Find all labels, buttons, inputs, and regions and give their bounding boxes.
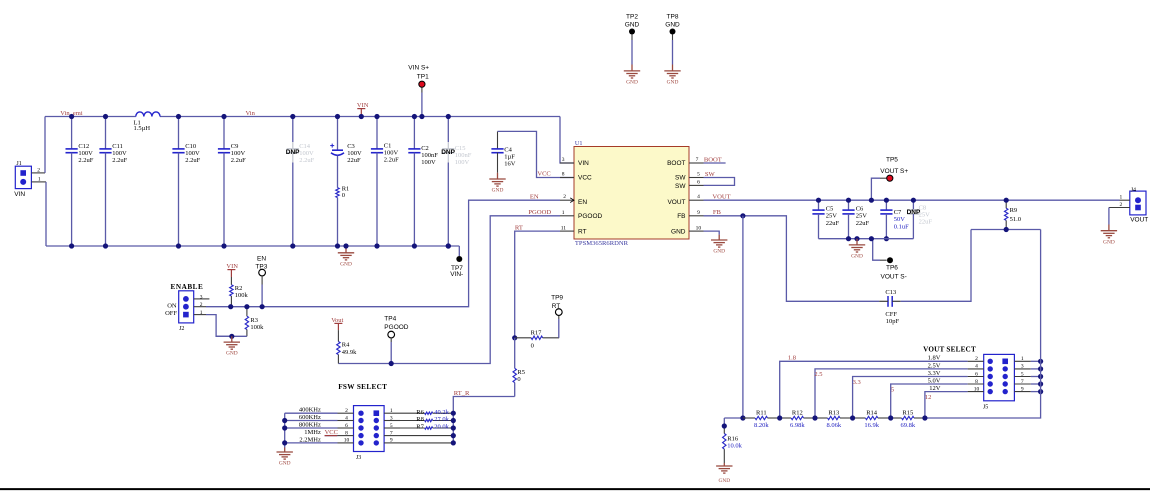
capacitor C2 100nF 100V: [408, 117, 438, 247]
connector J3 FSW header: [354, 406, 385, 461]
pin 9 FB: [689, 215, 704, 217]
wire 2.5V row to divider tap: [815, 369, 968, 418]
svg-text:10pF: 10pF: [886, 318, 900, 325]
resistor R8 27.0k: [400, 416, 453, 423]
svg-text:PGOOD: PGOOD: [528, 209, 551, 216]
svg-text:69.8k: 69.8k: [900, 422, 915, 429]
resistor R15 69.8k: [891, 409, 925, 429]
pin 8 J5 5.0V: [968, 383, 984, 385]
junction C14 top: [290, 114, 295, 119]
svg-text:2.5: 2.5: [814, 371, 822, 378]
ground GND at J3: [277, 448, 293, 467]
junction C10 top: [176, 114, 181, 119]
svg-text:GND: GND: [671, 228, 686, 235]
junction C3 top: [335, 114, 340, 119]
svg-text:2.2uF: 2.2uF: [112, 157, 127, 164]
resistor R11 8.20k: [743, 409, 780, 429]
svg-text:VIN: VIN: [14, 191, 25, 198]
svg-text:2: 2: [975, 356, 978, 362]
pin 9 J3: [384, 442, 400, 444]
svg-text:22uF: 22uF: [347, 157, 361, 164]
junction VIN flag rail: [359, 114, 364, 119]
svg-text:SW: SW: [675, 175, 686, 182]
junction C9 top: [221, 114, 226, 119]
svg-text:5: 5: [390, 423, 393, 429]
wire R9 bottom loop: [971, 229, 1041, 231]
junction RT_R bus: [451, 425, 456, 430]
wire RT from U1 down to R17: [515, 231, 560, 338]
svg-text:49.9k: 49.9k: [342, 349, 357, 356]
svg-text:7: 7: [696, 157, 699, 163]
ground GND under TP8: [664, 65, 680, 86]
wire 800KHz row: [285, 427, 338, 429]
svg-text:VIN-: VIN-: [450, 271, 463, 278]
pin 2 J5 1.8V: [968, 360, 984, 362]
wire J5 right pin to vout bus: [1031, 383, 1041, 385]
svg-text:1: 1: [38, 176, 41, 182]
pin 1 PGOOD: [560, 215, 574, 217]
junction divider node 4: [888, 415, 893, 420]
svg-text:R11: R11: [756, 409, 767, 416]
svg-text:3: 3: [390, 415, 393, 421]
svg-text:C9: C9: [231, 143, 239, 150]
wire FSW ground bus: [284, 413, 286, 447]
svg-text:10: 10: [974, 386, 980, 392]
wire J2 pin2 to EN net: [206, 306, 231, 308]
svg-text:VOUT S-: VOUT S-: [881, 273, 907, 280]
svg-text:8.06k: 8.06k: [826, 422, 841, 429]
svg-text:BOOT: BOOT: [667, 160, 685, 167]
svg-text:VOUT SELECT: VOUT SELECT: [923, 346, 976, 354]
junction C7 top: [884, 198, 889, 203]
test point TP1 VIN S+: [408, 64, 429, 116]
svg-text:TP8: TP8: [667, 14, 679, 21]
ground GND at input bottom rail: [338, 246, 354, 267]
svg-text:GND: GND: [626, 80, 638, 86]
svg-text:100V: 100V: [231, 150, 246, 157]
svg-text:C14: C14: [299, 143, 311, 150]
junction C2 bottom: [412, 243, 417, 248]
capacitor C9 100V 2.2uF: [218, 117, 246, 247]
capacitor C14 DNP 100V 2.2uF: [286, 117, 315, 247]
junction R3 top: [244, 304, 249, 309]
wire J3 pin row to RT_R bus: [400, 442, 453, 444]
svg-text:C8: C8: [919, 205, 927, 212]
resistor R2 100k: [230, 277, 249, 307]
svg-text:GND: GND: [667, 80, 679, 86]
resistor R13 8.06k: [815, 409, 853, 429]
junction R9 top: [1004, 198, 1009, 203]
wire SW loop pin5 to pin6: [704, 178, 735, 186]
svg-text:1: 1: [1120, 195, 1123, 201]
svg-text:25V: 25V: [919, 212, 931, 219]
svg-text:R12: R12: [792, 409, 803, 416]
connector J4 VOUT: [1109, 187, 1148, 223]
connector J5 VOUT select header: [983, 354, 1015, 410]
ground GND under TP2: [624, 65, 640, 86]
wire J5 right pin to vout bus: [1031, 368, 1041, 370]
svg-text:J2: J2: [179, 326, 184, 332]
svg-text:C3: C3: [347, 143, 355, 150]
svg-text:10: 10: [696, 225, 702, 231]
junction fsw row3: [282, 425, 287, 430]
capacitor C10 100V 2.2uF: [172, 117, 200, 247]
svg-text:R13: R13: [828, 409, 839, 416]
resistor R5 0: [513, 338, 525, 397]
pin 4 J5 2.5V: [968, 368, 984, 370]
pin 10 J3 2.2MHz: [338, 442, 354, 444]
connector J1 VIN: [14, 161, 46, 198]
junction vout bus: [1038, 366, 1043, 371]
svg-text:J4: J4: [1131, 187, 1136, 193]
svg-text:6: 6: [697, 180, 700, 186]
junction C10 bottom: [176, 243, 181, 248]
pin 4 J3 600KHz: [338, 420, 354, 422]
wire GND pin to ground: [704, 231, 720, 235]
capacitor C12 100V 2.2uF: [66, 117, 94, 247]
svg-text:3: 3: [1021, 364, 1024, 370]
svg-text:10: 10: [344, 438, 350, 444]
svg-text:3.3: 3.3: [853, 379, 861, 386]
ground GND at U1 pin 10: [711, 235, 727, 255]
svg-text:C10: C10: [185, 143, 196, 150]
svg-text:7: 7: [390, 430, 393, 436]
svg-text:100k: 100k: [235, 292, 249, 299]
test point TP4 PGOOD: [384, 316, 409, 364]
junction C2 top: [412, 114, 417, 119]
svg-text:R8: R8: [416, 416, 424, 423]
svg-text:R16: R16: [727, 436, 739, 443]
capacitor C3 100V 22uF polarized: [330, 117, 362, 188]
ground GND under R16: [716, 463, 732, 484]
svg-text:GND: GND: [665, 22, 680, 29]
connector J2 ENABLE: [165, 283, 209, 332]
svg-text:J1: J1: [16, 161, 21, 167]
svg-text:TP1: TP1: [417, 74, 429, 81]
capacitor C1 100V 2.2uF: [371, 117, 399, 247]
wire C4 to VCC pin: [498, 131, 575, 177]
junction C8 top: [911, 198, 916, 203]
junction C9 bottom: [221, 243, 226, 248]
svg-text:8: 8: [345, 430, 348, 436]
test point TP6 VOUT S-: [873, 239, 907, 280]
junction C6 bottom: [846, 236, 851, 241]
pin 2 J3 400KHz: [338, 412, 354, 414]
test point TP3 EN: [255, 256, 267, 307]
svg-text:800KHz: 800KHz: [299, 421, 321, 428]
junction R9 bottom: [1004, 227, 1009, 232]
wire divider bus left end: [724, 417, 743, 419]
svg-text:0: 0: [531, 343, 534, 350]
wire bottom input rail GND: [46, 245, 459, 247]
svg-text:OFF: OFF: [165, 310, 177, 317]
wire 5.0V row to divider tap: [891, 384, 968, 418]
svg-text:C12: C12: [78, 143, 89, 150]
svg-text:FB: FB: [677, 213, 685, 220]
svg-text:EN: EN: [257, 256, 266, 263]
svg-text:J5: J5: [983, 404, 988, 410]
junction TP7 rail: [446, 243, 451, 248]
wire C13 to R9 bottom: [901, 230, 971, 302]
capacitor C11 100V 2.2uF: [99, 117, 127, 247]
wire EN from U1 to enable circuit: [231, 200, 560, 307]
svg-text:9: 9: [1021, 386, 1024, 392]
wire 400KHz row: [285, 412, 338, 414]
ground GND output caps: [849, 239, 865, 260]
resistor R17 0: [515, 329, 559, 349]
svg-text:VOUT: VOUT: [1130, 216, 1148, 223]
junction C1 top: [374, 114, 379, 119]
svg-text:100k: 100k: [250, 324, 264, 331]
wire PGOOD from U1 down: [338, 216, 560, 364]
resistor R16 10.0k: [723, 418, 743, 463]
junction RT_R bus: [451, 411, 456, 416]
svg-text:0: 0: [342, 192, 345, 199]
svg-text:VOUT: VOUT: [667, 199, 685, 206]
pin 3 VIN: [560, 162, 574, 164]
svg-text:16.9k: 16.9k: [864, 422, 879, 429]
svg-text:C15: C15: [455, 145, 466, 152]
svg-text:1.8: 1.8: [788, 354, 796, 361]
svg-text:100V: 100V: [112, 150, 127, 157]
junction divider right end: [922, 415, 927, 420]
junction C11 bottom: [103, 243, 108, 248]
wire 600KHz row: [285, 420, 338, 422]
svg-text:22uF: 22uF: [856, 220, 870, 227]
capacitor C4 1uF 16V: [491, 131, 515, 172]
svg-text:3: 3: [562, 157, 565, 163]
svg-text:1µF: 1µF: [504, 153, 515, 160]
pin 5 SW: [689, 177, 704, 179]
junction TP6 bus: [869, 236, 874, 241]
svg-text:PGOOD: PGOOD: [578, 213, 603, 220]
junction fsw row2: [282, 418, 287, 423]
junction vout bus: [1038, 381, 1043, 386]
svg-text:EN: EN: [578, 199, 587, 206]
svg-text:C2: C2: [421, 145, 429, 152]
junction C6 top: [846, 198, 851, 203]
svg-text:C4: C4: [504, 146, 512, 153]
svg-text:GND: GND: [718, 478, 730, 484]
svg-text:R17: R17: [531, 329, 543, 336]
svg-text:22uF: 22uF: [919, 219, 933, 226]
wire VCC row: [325, 435, 338, 437]
power flag VIN on top rail: [357, 102, 369, 116]
junction R2 bottom: [228, 304, 233, 309]
svg-text:2: 2: [563, 194, 566, 200]
junction divider node 1: [777, 415, 782, 420]
pin 7 BOOT: [689, 162, 704, 164]
svg-text:6: 6: [345, 423, 348, 429]
svg-text:2.2uF: 2.2uF: [384, 156, 399, 163]
svg-text:SW: SW: [705, 171, 716, 178]
junction R16 top: [722, 423, 727, 428]
junction RT_R bus: [451, 440, 456, 445]
svg-text:C13: C13: [885, 289, 896, 296]
svg-text:100V: 100V: [421, 159, 436, 166]
svg-text:9: 9: [697, 210, 700, 216]
svg-text:12: 12: [925, 394, 932, 401]
svg-text:40.2k: 40.2k: [434, 409, 449, 416]
svg-text:GND: GND: [226, 351, 238, 357]
svg-text:Vin: Vin: [246, 110, 256, 117]
svg-text:2.5V: 2.5V: [928, 362, 941, 369]
pin 10 GND: [689, 230, 704, 232]
op-amp U1 TPSM365R6RDNR regulator module: [574, 140, 689, 247]
ground GND enable: [224, 336, 240, 356]
resistor R9 51.0: [1005, 200, 1021, 229]
svg-text:2.2uF: 2.2uF: [185, 157, 200, 164]
svg-text:100V: 100V: [347, 150, 362, 157]
svg-text:20.0k: 20.0k: [434, 424, 449, 431]
svg-text:TP4: TP4: [384, 316, 396, 323]
wire J3 pin row to RT_R bus: [400, 435, 453, 437]
svg-text:7: 7: [1021, 379, 1024, 385]
svg-text:FB: FB: [713, 209, 722, 216]
test point TP2 GND: [625, 14, 640, 65]
junction divider node 3: [850, 415, 855, 420]
svg-text:VIN: VIN: [578, 160, 589, 167]
capacitor C7 50V 0.1uF: [880, 200, 909, 239]
junction FB branch: [740, 213, 745, 218]
svg-text:TP2: TP2: [626, 14, 638, 21]
test point TP9 RT: [551, 294, 563, 338]
svg-text:100nF: 100nF: [421, 152, 438, 159]
svg-text:TPSM365R6RDNR: TPSM365R6RDNR: [575, 240, 629, 247]
svg-text:2.2uF: 2.2uF: [78, 157, 93, 164]
svg-text:GND: GND: [625, 22, 640, 29]
svg-text:1: 1: [390, 408, 393, 414]
svg-text:TP5: TP5: [886, 156, 898, 163]
resistor R1 0: [336, 185, 349, 246]
junction RT node: [512, 335, 517, 340]
resistor R7 20.0k: [400, 424, 453, 431]
svg-text:400KHz: 400KHz: [299, 407, 321, 414]
resistor R6 40.2k: [400, 409, 453, 416]
svg-text:2.2MHz: 2.2MHz: [299, 436, 321, 443]
wire R5 to RT_R bus: [453, 397, 514, 443]
svg-text:FSW SELECT: FSW SELECT: [338, 383, 387, 391]
wire VOUT rail: [704, 199, 1120, 201]
border bottom line: [0, 488, 1150, 490]
svg-text:100V: 100V: [299, 150, 314, 157]
svg-text:EN: EN: [530, 193, 539, 200]
ground GND under C4: [489, 173, 505, 194]
svg-text:ON: ON: [167, 302, 177, 309]
pin 1 J5: [1014, 360, 1030, 362]
power flag Vout above R4: [331, 317, 343, 330]
wire output caps bottom bus: [819, 238, 914, 240]
wire 3.3V row to divider tap: [853, 377, 968, 419]
svg-text:R14: R14: [866, 409, 878, 416]
svg-text:C7: C7: [894, 209, 902, 216]
wire J1 pin2 to top rail: [44, 117, 46, 173]
junction vout bus: [1038, 359, 1043, 364]
pin 6 J5 3.3V: [968, 376, 984, 378]
svg-text:100V: 100V: [78, 150, 93, 157]
svg-text:100V: 100V: [455, 159, 470, 166]
svg-text:RT: RT: [578, 228, 587, 235]
svg-text:U1: U1: [575, 140, 583, 147]
svg-text:2.2uF: 2.2uF: [299, 157, 314, 164]
junction TP1 rail: [419, 114, 424, 119]
pin 9 J5: [1014, 391, 1030, 393]
junction C7 bottom: [884, 236, 889, 241]
svg-text:VCC: VCC: [537, 171, 550, 178]
wire J5 right pin to vout bus: [1031, 360, 1041, 362]
junction RT_R bus: [451, 418, 456, 423]
svg-text:25V: 25V: [856, 213, 868, 220]
svg-text:C1: C1: [384, 142, 392, 149]
junction C12 top: [69, 114, 74, 119]
svg-text:DNP: DNP: [441, 149, 455, 156]
svg-text:R9: R9: [1010, 207, 1018, 214]
junction C12 bottom: [69, 243, 74, 248]
junction gnd input rail: [343, 243, 348, 248]
svg-text:C5: C5: [826, 206, 834, 213]
svg-text:1: 1: [562, 210, 565, 216]
svg-text:5: 5: [697, 171, 700, 177]
svg-text:RT: RT: [552, 303, 561, 310]
pin 6 J3 800KHz: [338, 427, 354, 429]
svg-text:TP9: TP9: [551, 294, 563, 301]
capacitor C5 25V 22uF: [812, 200, 839, 239]
power flag VIN above R2: [226, 263, 238, 277]
svg-text:27.0k: 27.0k: [434, 416, 449, 423]
junction TP5 rail: [869, 198, 874, 203]
svg-text:2: 2: [37, 167, 40, 173]
svg-text:2: 2: [1120, 202, 1123, 208]
svg-text:6: 6: [975, 371, 978, 377]
junction C14 bottom: [290, 243, 295, 248]
svg-text:5.0V: 5.0V: [928, 377, 941, 384]
svg-text:BOOT: BOOT: [704, 156, 722, 163]
svg-text:GND: GND: [492, 188, 504, 194]
svg-text:R4: R4: [342, 342, 350, 349]
svg-text:10.0k: 10.0k: [727, 443, 742, 450]
svg-text:4: 4: [697, 194, 700, 200]
svg-text:4: 4: [975, 364, 978, 370]
svg-text:8.20k: 8.20k: [754, 422, 769, 429]
svg-text:0.1uF: 0.1uF: [894, 224, 909, 231]
svg-text:3.3V: 3.3V: [928, 370, 941, 377]
wire R3 bottom to ground: [216, 335, 247, 337]
resistor R14 16.9k: [853, 409, 891, 429]
wire FB from U1 pin9: [704, 216, 880, 301]
pin 3 J3: [384, 420, 400, 422]
svg-text:R7: R7: [416, 424, 424, 431]
svg-text:1: 1: [200, 310, 203, 316]
test point TP5 VOUT S+: [871, 156, 908, 200]
svg-text:GND: GND: [851, 254, 863, 260]
pin 2 EN with input arrow: [560, 199, 574, 201]
pin 4 VOUT: [689, 199, 704, 201]
pin 1 J3: [384, 412, 400, 414]
svg-text:1MHz: 1MHz: [304, 429, 321, 436]
svg-text:TP6: TP6: [886, 265, 898, 272]
svg-text:11: 11: [561, 225, 567, 231]
wire top rail to VIN pin: [560, 117, 574, 164]
svg-text:12V: 12V: [929, 385, 941, 392]
capacitor C13 CFF 10pF: [879, 289, 901, 325]
svg-text:2: 2: [345, 408, 348, 414]
svg-text:22uF: 22uF: [826, 220, 840, 227]
pin 8 J3 1MHz: [338, 435, 354, 437]
resistor R4 49.9k: [337, 330, 357, 363]
svg-text:GND: GND: [713, 249, 725, 255]
junction C11 top: [103, 114, 108, 119]
pin 5 J5: [1014, 376, 1030, 378]
